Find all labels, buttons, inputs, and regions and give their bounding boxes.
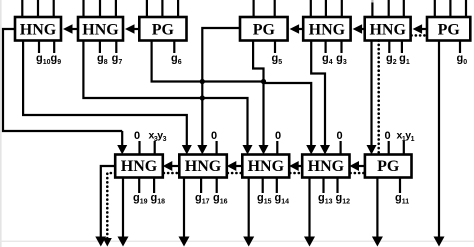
wire: top inputs of HNG2 [84, 0, 116, 17]
svg-text:PG: PG [152, 21, 175, 38]
gate PG-E [365, 155, 412, 178]
wire: g5 stub under PG4 [274, 41, 276, 54]
wire: g17 g16 stubs under HNG-B [201, 178, 217, 194]
wire: PG4 carry out left, down x202, into HNG-B [197, 28, 240, 155]
wire: g19 g18 stubs under HNG-A [139, 178, 154, 194]
label g13 g12 [318, 192, 350, 206]
svg-text:0: 0 [385, 130, 391, 142]
wire: HNG6 out down into PG-E [367, 41, 377, 155]
label 0 above HNG-D [337, 130, 343, 142]
gate HNG-B [179, 155, 227, 178]
label g0 [457, 53, 468, 67]
wire: HNG5 out down, step right, into HNG-D [311, 41, 330, 155]
wire: HNG-A carry out left down to bottom arrow [95, 166, 115, 247]
svg-text:0: 0 [134, 130, 140, 142]
junction at x202 y98 [200, 95, 205, 100]
svg-text:HNG: HNG [82, 21, 119, 38]
label g10 g9 [36, 53, 61, 67]
gate HNG1 [15, 17, 61, 41]
wire: top inputs of HNG1 [22, 0, 53, 17]
label g8 g7 [97, 53, 122, 67]
wire: g2 g1 stubs under HNG6 [389, 41, 402, 54]
wire: g0 stub under PG7 [459, 41, 461, 54]
wire: dotted out of HNG-A left down to bottom arrow [103, 173, 115, 247]
gate HNG6 [365, 17, 411, 41]
wire: PG-E out to bottom arrow [372, 178, 383, 247]
junction at x202 y81.5 [200, 79, 205, 84]
wire: HNG1 sum out down, bus y115, into HNG-B [23, 41, 192, 155]
label g4 g3 [322, 53, 347, 67]
label 0 above HNG-C [275, 130, 281, 142]
wire: 0 stub into PG-E [388, 141, 390, 155]
label x1 y1 above PG-E [397, 130, 415, 144]
wire: HNG2 out down, bus y98, into HNG-C [83, 41, 252, 155]
wire: g13 g12 stubs under HNG-D [324, 178, 338, 194]
svg-text:HNG: HNG [369, 21, 406, 38]
arrow HNG-D to HNG-C [289, 161, 302, 171]
wire: g6 stub under PG3 [173, 41, 175, 54]
wire: top inputs of PG3 [147, 0, 178, 17]
wire: 0 stub into HNG-C [276, 141, 278, 155]
arrow PG3 to HNG2 [125, 24, 139, 34]
wire: top inputs of PG4 [254, 0, 275, 17]
wire: HNG-A sum out to bottom arrow [118, 178, 129, 247]
svg-text:HNG: HNG [185, 158, 222, 175]
wire: g15 g14 stubs under HNG-C [263, 178, 277, 194]
svg-text:PG: PG [438, 21, 461, 38]
arrow HNG2 to HNG1 [63, 24, 78, 34]
svg-text:0: 0 [337, 130, 343, 142]
wire: HNG1 carry out, left edge down to row2 HNG-A [3, 29, 127, 155]
junction at x263.5 y81.5 [261, 79, 266, 84]
label g15 g14 [257, 192, 289, 206]
label g17 g16 [195, 192, 228, 206]
label g5 [272, 53, 283, 67]
svg-text:PG: PG [377, 158, 400, 175]
gate PG7 [427, 17, 470, 41]
label g6 [171, 53, 182, 67]
wire: g8 g7 stubs under HNG2 [100, 41, 116, 54]
svg-text:0: 0 [211, 130, 217, 142]
wire: HNG-C sum out to bottom arrow [243, 178, 254, 247]
arrow PG7 to HNG6 [413, 24, 427, 34]
svg-text:HNG: HNG [20, 21, 57, 38]
label g11 [395, 192, 409, 206]
gate HNG5 [303, 17, 350, 41]
wire: PG3 out down, bus y81.5 then y83, into HNG-D [152, 41, 317, 155]
arrow HNG5 to PG4 [290, 24, 304, 34]
scan artifact: bottom gray line [0, 241, 474, 242]
wire: 0 stub into HNG-A [138, 141, 140, 155]
gate HNG-A [115, 155, 163, 178]
wire: g11 stub under PG-E [399, 178, 401, 194]
svg-text:HNG: HNG [309, 21, 346, 38]
wire: 0 stub into HNG-B [216, 141, 218, 155]
arrow HNG6 to HNG5 [353, 24, 365, 34]
wire: x3y3 stub into HNG-A [154, 141, 156, 155]
gate HNG-C [242, 155, 289, 178]
label 0 above HNG-A [134, 130, 140, 142]
wire: PG4 out down, step right, into HNG-C [253, 41, 268, 155]
wire: dotted HNG-D to HNG-C [290, 172, 302, 175]
gate PG3 [139, 17, 186, 41]
svg-text:HNG: HNG [308, 158, 345, 175]
wire: dotted from PG7 to HNG6 [412, 34, 428, 37]
wire: dotted HNG-C to HNG-B [228, 172, 243, 175]
svg-text:HNG: HNG [121, 158, 158, 175]
wire: top inputs of PG7 [435, 0, 466, 17]
wire: top inputs of HNG6 [372, 0, 403, 17]
label g2 g1 [386, 53, 410, 67]
scan artifact: left gray strip [0, 0, 2, 247]
wire: PG7 out down to bottom arrow [434, 41, 445, 247]
gate HNG2 [78, 17, 123, 41]
wire: HNG-D sum out to bottom arrow [304, 178, 315, 247]
arrow HNG-C to HNG-B [227, 161, 243, 171]
wire: 0 stub into HNG-D [340, 141, 342, 155]
wire: dotted HNG-B to HNG-A [164, 172, 180, 175]
label 0 above PG-E [385, 130, 391, 142]
wire: HNG-B sum out to bottom arrow [179, 178, 190, 247]
wire: dotted PG-E to HNG-D [351, 172, 365, 175]
gate PG4 [240, 17, 288, 41]
arrow HNG-B to HNG-A [163, 161, 180, 171]
label 0 above HNG-B [211, 130, 217, 142]
svg-text:HNG: HNG [248, 158, 285, 175]
wire: g4 g3 stubs under HNG5 [326, 41, 342, 54]
wire: g10 g9 stubs under HNG1 [39, 41, 54, 54]
wire: dotted from HNG6 down into PG-E [377, 41, 380, 155]
arrow PG-E to HNG-D [350, 161, 365, 171]
wire: top inputs of HNG5 [311, 0, 342, 17]
svg-text:PG: PG [253, 21, 276, 38]
label g19 g18 [133, 192, 165, 206]
label x3 y3 above HNG-A [149, 130, 167, 144]
wire: x1y1 stub into PG-E [403, 141, 405, 155]
svg-text:0: 0 [275, 130, 281, 142]
gate HNG-D [302, 155, 349, 178]
